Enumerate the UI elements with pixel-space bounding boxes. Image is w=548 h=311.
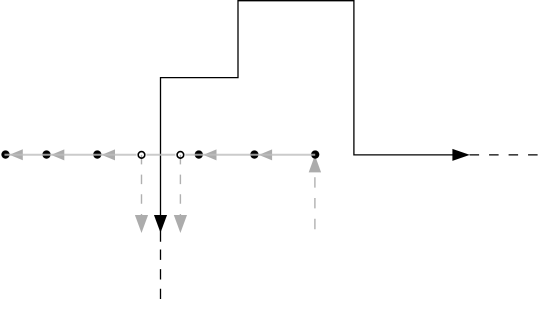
open circle O1 (unstable point)	[138, 152, 145, 159]
gray down arrowhead under O2	[174, 215, 187, 233]
black down arrowhead on descending trajectory	[154, 215, 167, 233]
filled equilibrium dot P6	[311, 150, 319, 158]
gray down arrowhead under O1	[135, 215, 148, 233]
filled equilibrium dot P2	[42, 150, 50, 158]
open circle O2 (unstable point)	[177, 152, 184, 159]
black dashed continuation rightward	[470, 154, 538, 156]
dashed gray trajectory below open circle O2	[179, 155, 181, 215]
dashed gray trajectory below open circle O1	[141, 155, 143, 215]
black dashed continuation downward	[160, 250, 162, 300]
gray left arrowhead at P4	[203, 149, 216, 160]
filled equilibrium dot P4	[195, 150, 203, 158]
horizontal axis (translucent gray phase line, drawn over dots and arrows)	[5, 154, 316, 156]
gray left arrowhead at P2	[51, 149, 64, 160]
gray left arrowhead at P5	[259, 149, 272, 160]
gray up arrowhead toward P6	[309, 155, 321, 172]
filled equilibrium dot P3	[93, 150, 101, 158]
filled equilibrium dot P5	[250, 150, 258, 158]
dashed gray trajectory rising to point P6	[314, 155, 316, 230]
black right arrowhead on outgoing trajectory	[452, 149, 469, 161]
white halo around O2	[175, 150, 185, 160]
white halo around O1	[136, 150, 146, 160]
gray left arrowhead at P3	[102, 149, 115, 160]
gray left arrowhead at P1	[9, 149, 22, 160]
filled equilibrium dot P1	[1, 150, 9, 158]
step function graph (black outline) with outgoing trajectory	[161, 1, 454, 242]
